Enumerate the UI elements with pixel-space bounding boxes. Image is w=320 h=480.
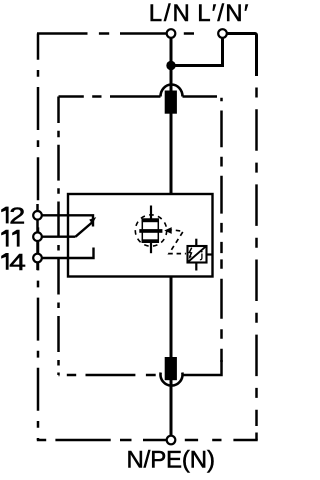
changeover contact arm arrowhead [89,217,96,224]
outer enclosure border right edge [255,76,258,426]
wire contact 14 [42,248,94,259]
outer enclosure border top edge [37,32,194,35]
inner module border top edge left part [59,95,161,98]
module box U1 [68,194,213,277]
gas discharge tube G1 top lead [150,206,152,220]
monitoring device U2 lightning arrow tip [189,255,192,259]
label 14 [1,253,8,270]
terminal 12 [33,211,42,220]
inner module border left edge [57,97,60,376]
wire from L'/N' terminal to outer right rail [227,34,257,77]
outer enclosure border left edge [37,34,40,441]
disconnector F1 arc [161,85,183,97]
svg-text:4: 4 [9,249,26,275]
disconnector F1 body [165,91,177,114]
gas discharge tube G1 bottom electrode [142,239,159,243]
wire disconnector F2 to N/PE(N) terminal [170,380,173,436]
monitoring device U2 right lead [207,253,213,255]
svg-text:N/PE(N): N/PE(N) [127,446,215,473]
inner module border bottom-right solid corner [183,360,222,375]
inner module border right edge [220,98,223,362]
disconnector F2 body [165,357,177,380]
monitoring dashed linkage [169,230,186,254]
gas discharge tube G1 middle electrode bar [139,229,162,233]
gas discharge tube G1 bottom lead [150,243,152,254]
label 11 [1,230,8,247]
gas discharge tube G1 outline [142,219,158,242]
monitoring device U2 indicator mark stem [200,254,202,260]
label 12 [1,207,8,224]
gas discharge tube G1 top electrode [142,219,159,223]
monitoring device U2 diagonal [189,247,206,262]
terminal 14 [33,254,42,263]
terminal N/PE(N) [167,436,176,445]
outer enclosure border right edge corner piece [255,433,258,441]
monitoring device U2 lightning symbol [189,248,191,257]
wire from L'/N' terminal down and left to node A [171,38,223,66]
wire contact 11 [42,235,76,237]
wire from L/N terminal down to disconnector [170,38,173,92]
monitoring device U2 indicator mark dot [201,251,203,253]
terminal 11 [33,232,42,241]
outer enclosure border bottom edge [37,439,258,442]
inner module border top edge right part [183,95,218,98]
svg-text:2: 2 [9,202,25,228]
wire disconnector F1 to module box [170,113,173,194]
changeover contact arm K1 [76,223,93,237]
svg-text:L′/N′: L′/N′ [197,0,249,27]
monitoring device U2 bottom lead [195,263,197,271]
terminal L/N [167,29,176,38]
node A junction dot [166,61,175,70]
wire module box to disconnector F2 [170,277,173,358]
disconnector F2 arc [161,373,183,386]
wire contact 12 [42,215,94,226]
solid link between signalling terminals [36,204,39,270]
monitoring device U2 box [188,246,207,263]
svg-text:L/N: L/N [149,0,192,27]
monitoring arrowhead pointing at G1 [164,227,171,234]
monitoring dashed circle around G1 [135,215,166,246]
monitoring device U2 top lead [195,239,197,246]
terminal L'/N' [218,29,227,38]
inner module border bottom edge left part [59,374,156,377]
